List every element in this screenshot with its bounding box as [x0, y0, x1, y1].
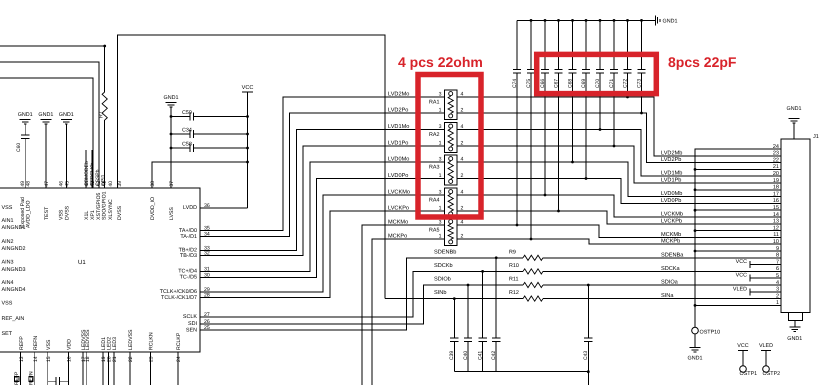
- svg-text:16: 16: [773, 198, 779, 204]
- resistor network RA5: [445, 218, 458, 246]
- svg-text:VLED: VLED: [759, 343, 773, 349]
- svg-text:VSS: VSS: [46, 339, 52, 350]
- svg-text:VCC: VCC: [736, 259, 747, 265]
- svg-text:U1: U1: [78, 259, 86, 266]
- wire LVDS staircase: [200, 146, 445, 256]
- svg-text:C58: C58: [182, 142, 192, 148]
- capacitor C73: [641, 20, 643, 69]
- node C42 top: [495, 256, 498, 259]
- node C73 wire: [640, 112, 643, 115]
- capacitor C75: [530, 20, 532, 69]
- resistor network RA4: [445, 188, 458, 218]
- svg-text:C39: C39: [449, 351, 455, 360]
- svg-text:GND1: GND1: [787, 106, 802, 112]
- wire top GND bus: [517, 19, 654, 21]
- node C66 wire: [544, 194, 547, 197]
- resistor R9: [523, 255, 543, 260]
- wire pin 18: [86, 352, 88, 385]
- svg-text:VCC: VCC: [737, 343, 748, 349]
- wire LVDS output: [457, 97, 781, 156]
- svg-text:47: 47: [44, 181, 50, 187]
- svg-text:LVCKPo: LVCKPo: [388, 206, 409, 212]
- svg-text:LVD1Po: LVD1Po: [388, 141, 408, 147]
- svg-text:DVSS: DVSS: [65, 205, 71, 220]
- svg-text:RA1: RA1: [429, 100, 440, 106]
- node C40 top: [467, 284, 470, 287]
- capacitor C39: [453, 299, 455, 338]
- node C59 right: [246, 115, 249, 118]
- svg-text:SET: SET: [2, 331, 13, 337]
- svg-text:J1: J1: [813, 134, 819, 140]
- svg-text:C67: C67: [553, 79, 559, 88]
- wire LVDS output: [457, 195, 781, 217]
- wire LVDS staircase: [200, 97, 445, 231]
- node C67 wire: [557, 210, 560, 213]
- wire pin 44 stub: [85, 150, 87, 188]
- node C66 bus: [544, 19, 547, 22]
- svg-text:VLED: VLED: [733, 286, 747, 292]
- wire pin 22: [129, 352, 131, 385]
- svg-text:18: 18: [85, 356, 91, 362]
- wire LVDS output: [457, 162, 781, 197]
- svg-text:40: 40: [108, 181, 114, 187]
- svg-text:LEDVSS: LEDVSS: [85, 329, 91, 350]
- svg-text:DVDD_IO: DVDD_IO: [150, 197, 156, 220]
- svg-text:LVD1Pb: LVD1Pb: [661, 177, 681, 184]
- svg-text:LVD2Mo: LVD2Mo: [388, 92, 409, 98]
- wire pin 43 stub: [91, 150, 93, 188]
- node C75 wire: [530, 238, 533, 241]
- svg-text:C41: C41: [477, 351, 483, 360]
- annotation red box 8pcs 22pF: [537, 54, 657, 93]
- svg-text:SEN: SEN: [186, 327, 197, 333]
- wire OSTP10 to ground: [694, 334, 696, 348]
- svg-text:SCLK: SCLK: [183, 314, 197, 320]
- svg-text:14: 14: [773, 212, 779, 218]
- svg-text:C74: C74: [512, 79, 518, 88]
- node pin 9: [694, 250, 697, 253]
- wire J1 pin 9 gnd: [695, 250, 781, 252]
- IC U1: [0, 188, 200, 352]
- svg-text:1: 1: [439, 234, 442, 240]
- svg-text:AIN1: AIN1: [2, 218, 14, 224]
- capacitor C72: [627, 20, 629, 69]
- wire SINa: [543, 298, 781, 300]
- svg-text:GND1: GND1: [18, 112, 33, 118]
- svg-text:GND1: GND1: [38, 112, 53, 118]
- node C70 bus: [599, 19, 602, 22]
- wire J1 ground bus: [695, 149, 781, 305]
- svg-text:C73: C73: [636, 79, 642, 88]
- svg-text:13: 13: [19, 356, 25, 362]
- svg-text:AIN2: AIN2: [2, 239, 14, 245]
- wire C60 down: [24, 138, 26, 188]
- svg-text:15: 15: [46, 356, 52, 362]
- svg-text:6: 6: [776, 266, 779, 272]
- svg-text:2: 2: [776, 293, 779, 299]
- svg-text:R12: R12: [509, 290, 519, 296]
- svg-text:20: 20: [773, 171, 779, 177]
- svg-text:LVSS: LVSS: [169, 207, 175, 220]
- svg-text:39: 39: [117, 181, 123, 187]
- capacitor C43: [587, 285, 589, 338]
- wire SDENBa: [543, 257, 781, 259]
- wire LVDS output: [457, 239, 781, 244]
- node C41 top: [481, 270, 484, 273]
- pad mark pin13: [15, 377, 19, 382]
- node C34 left: [170, 133, 173, 136]
- svg-text:LVD2Mb: LVD2Mb: [661, 149, 682, 156]
- svg-text:R10: R10: [509, 263, 519, 269]
- node C43 bottom: [587, 370, 590, 373]
- svg-text:LVCKPb: LVCKPb: [661, 217, 682, 224]
- ground GND1 sideways: [654, 19, 656, 21]
- svg-text:C59: C59: [182, 110, 192, 116]
- resistor network RA2: [445, 123, 458, 153]
- node C70 wire: [599, 128, 602, 131]
- svg-text:AINGND4: AINGND4: [2, 287, 26, 293]
- node C73 bus: [640, 19, 643, 22]
- resistor network RA1: [445, 90, 458, 120]
- svg-text:AIN4: AIN4: [2, 280, 14, 286]
- node C67 bus: [557, 19, 560, 22]
- svg-text:1: 1: [439, 173, 442, 179]
- svg-text:C68: C68: [567, 79, 573, 88]
- node C69 wire: [585, 177, 588, 180]
- node pin 21: [694, 168, 697, 171]
- svg-text:10: 10: [773, 239, 779, 245]
- resistor R10: [523, 269, 543, 274]
- svg-text:TC-/D5: TC-/D5: [180, 275, 197, 281]
- resistor R7: [102, 92, 107, 120]
- node pin 12: [694, 229, 697, 232]
- svg-text:GND1: GND1: [663, 19, 678, 25]
- svg-text:OSTP1: OSTP1: [740, 371, 758, 377]
- svg-text:AIN3: AIN3: [2, 260, 14, 266]
- svg-text:XLSYNC: XLSYNC: [108, 199, 114, 220]
- wire pin 13: [20, 352, 22, 385]
- wire LVDS staircase: [200, 195, 445, 292]
- svg-text:GND1: GND1: [688, 356, 703, 362]
- node C68 bus: [571, 19, 574, 22]
- node C71 wire: [613, 145, 616, 148]
- wire SDIOb: [200, 285, 523, 324]
- svg-text:3: 3: [439, 124, 442, 130]
- capacitor C67: [558, 20, 560, 69]
- capacitor C68: [572, 20, 574, 69]
- node VCC col y162: [246, 161, 249, 164]
- wire LVDS output: [457, 211, 781, 224]
- wire SDIOa: [543, 284, 781, 286]
- svg-text:MCKPb: MCKPb: [661, 238, 680, 245]
- node C58 right: [246, 147, 249, 150]
- svg-text:45: 45: [65, 181, 71, 187]
- wire J1 pin 18 gnd: [695, 189, 781, 191]
- node C43 top: [587, 284, 590, 287]
- wire SDCKa: [543, 270, 781, 272]
- capacitor C70: [599, 20, 601, 69]
- svg-text:REFN: REFN: [33, 336, 39, 350]
- svg-text:23: 23: [773, 151, 779, 157]
- svg-text:3: 3: [439, 157, 442, 163]
- capacitor C42: [495, 258, 497, 338]
- wire J1 pin 15 gnd: [695, 209, 781, 211]
- svg-text:LVD2Po: LVD2Po: [388, 108, 408, 114]
- svg-text:LVDD: LVDD: [183, 205, 197, 211]
- annotation red box 4 pcs 22ohm: [418, 75, 481, 218]
- svg-text:22: 22: [773, 157, 779, 163]
- wire pin 20: [108, 352, 110, 385]
- wire to pin 41: [0, 62, 99, 188]
- svg-text:TCLK-/CK1/D7: TCLK-/CK1/D7: [161, 295, 197, 301]
- svg-text:C43: C43: [583, 351, 589, 360]
- wire LVDS staircase: [200, 113, 445, 237]
- wire LVDS output: [457, 179, 781, 204]
- wire MCKMo riser: [362, 225, 445, 385]
- svg-text:GND1: GND1: [59, 112, 74, 118]
- svg-text:MCKMo: MCKMo: [388, 220, 408, 226]
- wire LVDS staircase: [200, 130, 445, 251]
- capacitor C69: [585, 20, 587, 69]
- connector J1 mounting tab: [789, 313, 803, 321]
- wire SINb: [385, 298, 523, 300]
- svg-text:REFP: REFP: [19, 336, 25, 350]
- ground GND1 below J1: [794, 321, 796, 328]
- wire pin 19: [102, 352, 104, 385]
- wire pin 21: [113, 352, 115, 385]
- svg-text:19: 19: [773, 178, 779, 184]
- wire bus to bottom: [587, 372, 589, 385]
- svg-text:1: 1: [439, 108, 442, 114]
- svg-text:GND1: GND1: [787, 336, 802, 342]
- svg-text:37: 37: [169, 181, 175, 187]
- capacitor between VSS and VDD: [48, 380, 56, 382]
- svg-text:LVD0Mo: LVD0Mo: [388, 157, 409, 163]
- connector J1: [781, 139, 810, 313]
- svg-text:OSTP2: OSTP2: [763, 371, 781, 377]
- wire SDENBb: [200, 258, 523, 330]
- svg-text:SDI: SDI: [188, 321, 197, 327]
- node C75 bus: [530, 19, 533, 22]
- svg-text:GPI1: GPI1: [101, 174, 107, 186]
- wire J1 pin 21 gnd: [695, 168, 781, 170]
- wire SDCKb: [200, 271, 523, 317]
- svg-text:TA-/D1: TA-/D1: [180, 234, 197, 240]
- svg-text:SDIOa: SDIOa: [661, 280, 679, 286]
- wire LVDS output: [457, 130, 781, 177]
- svg-text:R9: R9: [509, 249, 516, 255]
- svg-text:3: 3: [439, 190, 442, 196]
- svg-text:C69: C69: [581, 79, 587, 88]
- svg-text:GND1: GND1: [164, 95, 179, 101]
- svg-text:TB-/D3: TB-/D3: [180, 253, 197, 259]
- svg-text:C71: C71: [609, 79, 615, 88]
- svg-text:16: 16: [67, 356, 73, 362]
- svg-text:LED3: LED3: [112, 337, 118, 350]
- node pin 1: [694, 304, 697, 307]
- svg-text:C60: C60: [16, 143, 22, 152]
- svg-text:RCLKP: RCLKP: [176, 332, 182, 350]
- pad mark pin14: [29, 377, 33, 382]
- svg-text:LVD1Mo: LVD1Mo: [388, 124, 409, 130]
- node C72 bus: [626, 19, 629, 22]
- svg-text:SINa: SINa: [661, 293, 674, 299]
- wire LVDS staircase: [200, 211, 445, 298]
- capacitor C40: [467, 285, 469, 338]
- wire MCKPo riser: [372, 239, 445, 385]
- svg-text:MCKPo: MCKPo: [388, 234, 407, 240]
- svg-text:LVD0Mb: LVD0Mb: [661, 190, 682, 197]
- svg-text:1: 1: [439, 206, 442, 212]
- node C59 left: [170, 115, 173, 118]
- svg-text:VCC: VCC: [736, 273, 747, 279]
- svg-text:MCKMb: MCKMb: [661, 231, 681, 238]
- capacitor C41: [482, 271, 484, 338]
- svg-text:1: 1: [439, 141, 442, 147]
- node C72 wire: [626, 96, 629, 99]
- svg-text:LVCKMo: LVCKMo: [388, 190, 410, 196]
- capacitor C60: [21, 134, 29, 136]
- node C71 bus: [613, 19, 616, 22]
- node pin 18: [694, 188, 697, 191]
- wire pin 39 to top net: [118, 35, 386, 298]
- wire pin 17: [82, 352, 84, 385]
- node C68 wire: [571, 161, 574, 164]
- wire pin 24: [177, 352, 179, 385]
- wire pin 23: [150, 352, 152, 385]
- svg-text:C66: C66: [540, 79, 546, 88]
- capacitor C34: [171, 133, 190, 135]
- svg-text:RA3: RA3: [429, 165, 440, 171]
- svg-text:22: 22: [128, 356, 134, 362]
- svg-text:C70: C70: [595, 79, 601, 88]
- svg-text:OSTP10: OSTP10: [700, 330, 721, 336]
- resistor R12: [523, 296, 543, 301]
- svg-text:SDIOb: SDIOb: [434, 276, 451, 283]
- svg-text:8pcs 22pF: 8pcs 22pF: [668, 54, 737, 70]
- wire LVDS staircase: [200, 162, 445, 272]
- wire DVDD_IO net: [152, 162, 248, 188]
- svg-text:C42: C42: [491, 351, 497, 360]
- svg-text:24: 24: [176, 356, 182, 362]
- svg-text:RCLKN: RCLKN: [149, 332, 155, 350]
- wire bottom cap bus: [454, 371, 588, 373]
- wire net to pin 40 with R7: [0, 46, 105, 92]
- svg-text:LVCKMb: LVCKMb: [661, 211, 683, 218]
- capacitor C74: [516, 20, 518, 69]
- svg-text:SINb: SINb: [434, 289, 446, 296]
- node C39 top: [453, 297, 456, 300]
- svg-text:14: 14: [33, 356, 39, 362]
- svg-text:48: 48: [26, 181, 32, 187]
- wire GND1 to pin 47: [45, 124, 47, 188]
- svg-text:LEDVSS: LEDVSS: [128, 329, 134, 350]
- svg-text:C40: C40: [463, 351, 469, 360]
- wire VCC column: [247, 92, 249, 208]
- svg-text:23: 23: [149, 356, 155, 362]
- wire VCC to pin 36 LVDD: [200, 207, 248, 209]
- svg-text:RA2: RA2: [429, 132, 440, 138]
- svg-text:13: 13: [773, 219, 779, 225]
- svg-text:8: 8: [776, 253, 779, 259]
- svg-text:SDCKa: SDCKa: [661, 266, 681, 272]
- resistor network RA3: [445, 155, 458, 185]
- svg-text:LVD0Po: LVD0Po: [388, 173, 408, 179]
- wire to pin 42: [0, 78, 93, 188]
- capacitor C66: [544, 20, 546, 69]
- svg-text:11: 11: [773, 232, 779, 238]
- resistor R11: [523, 282, 543, 287]
- test point OSTP10: [692, 327, 699, 334]
- svg-text:SDO/GPIO1: SDO/GPIO1: [102, 191, 108, 220]
- capacitor C59: [171, 116, 190, 118]
- capacitor C71: [613, 20, 615, 69]
- svg-text:4: 4: [776, 280, 779, 286]
- wire GND column: [170, 107, 172, 188]
- svg-text:LVD0Pb: LVD0Pb: [661, 197, 681, 204]
- wire J1 pin 12 gnd: [695, 230, 781, 232]
- node C69 bus: [585, 19, 588, 22]
- svg-text:21: 21: [112, 356, 118, 362]
- wire OSTP10: [694, 305, 696, 327]
- node C34 right: [246, 133, 249, 136]
- svg-text:SDENBa: SDENBa: [661, 252, 684, 258]
- svg-text:LVD1Mb: LVD1Mb: [661, 170, 682, 177]
- wire LVDS output: [457, 225, 781, 237]
- svg-text:C75: C75: [526, 79, 532, 88]
- svg-text:17: 17: [773, 191, 779, 197]
- svg-text:3: 3: [439, 220, 442, 226]
- svg-text:R11: R11: [509, 277, 519, 283]
- wire pin 14: [34, 352, 36, 385]
- wire pin 16: [67, 352, 69, 385]
- svg-text:REF_AIN: REF_AIN: [2, 316, 25, 322]
- svg-text:3: 3: [439, 92, 442, 98]
- wire R7 to pin 40: [104, 120, 106, 188]
- wire LVDS output: [457, 146, 781, 183]
- ground GND1 below OSTP10: [690, 347, 701, 349]
- svg-text:VSS: VSS: [2, 205, 13, 211]
- node C58 left: [170, 147, 173, 150]
- svg-text:DVSS: DVSS: [117, 205, 123, 220]
- svg-text:AVDD_LDO: AVDD_LDO: [26, 200, 32, 228]
- svg-text:SDCKb: SDCKb: [434, 262, 453, 269]
- svg-text:AINGND2: AINGND2: [2, 246, 26, 252]
- node R7 top: [103, 45, 106, 48]
- svg-text:SDENBb: SDENBb: [434, 248, 456, 255]
- capacitor C58: [171, 147, 190, 149]
- wire GND1 to pin 45: [65, 124, 67, 188]
- svg-text:LVD2Pb: LVD2Pb: [661, 156, 681, 163]
- svg-text:RA4: RA4: [429, 198, 440, 204]
- wire LVDS output: [457, 113, 781, 163]
- svg-text:TEST: TEST: [44, 206, 50, 220]
- svg-text:4 pcs 22ohm: 4 pcs 22ohm: [398, 54, 483, 70]
- svg-text:VDD: VDD: [67, 339, 73, 350]
- svg-text:C34: C34: [182, 128, 192, 134]
- wire pin 15: [47, 352, 49, 385]
- svg-text:VSS: VSS: [2, 301, 13, 307]
- wire GND1 to C60: [24, 124, 26, 135]
- svg-text:C72: C72: [622, 79, 628, 88]
- node C74 wire: [516, 224, 519, 227]
- svg-text:AINGND3: AINGND3: [2, 267, 26, 273]
- svg-text:38: 38: [150, 181, 156, 187]
- svg-text:VCC: VCC: [242, 85, 254, 91]
- node pin 15: [694, 209, 697, 212]
- wire LVDS staircase: [200, 179, 445, 278]
